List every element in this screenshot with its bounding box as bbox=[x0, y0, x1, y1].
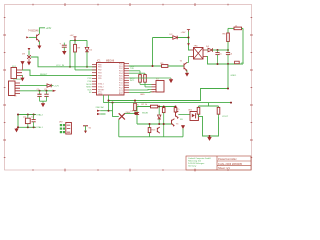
junction c5 bbox=[217, 49, 219, 51]
capacitor C1 bbox=[37, 91, 41, 101]
transistor T4 bbox=[37, 34, 40, 41]
svg-text:PB3: PB3 bbox=[98, 72, 102, 74]
svg-text:D2: D2 bbox=[90, 50, 94, 52]
T3 arrow bbox=[173, 125, 175, 126]
transistor T5 bbox=[176, 111, 179, 118]
IC1 pin names left column bbox=[98, 64, 105, 95]
junction caps1 bbox=[39, 90, 41, 92]
supply +5V symbol bbox=[74, 37, 77, 40]
wire R5 to T2 bbox=[168, 65, 184, 67]
svg-text:S1: S1 bbox=[89, 127, 92, 129]
title block left text bbox=[188, 157, 211, 167]
resistor R2 v x147 bbox=[129, 73, 146, 87]
wire R2 to SV2 bbox=[145, 86, 152, 88]
jumper JP2 body bbox=[66, 123, 72, 135]
wire T2 collector to trafo bbox=[187, 57, 191, 63]
switch S1 gnd bbox=[84, 131, 87, 134]
svg-text:XTAL2: XTAL2 bbox=[98, 86, 104, 89]
junction top right bbox=[188, 37, 190, 39]
svg-text:C5: C5 bbox=[219, 53, 222, 55]
capacitor C6 bbox=[226, 50, 230, 64]
IC1 box bbox=[97, 63, 125, 96]
port arrow 2 bbox=[97, 113, 100, 115]
wire T2 emitter gnd bbox=[186, 70, 188, 72]
connector X1 bbox=[9, 81, 21, 96]
inductor L1 vertical bbox=[227, 28, 230, 50]
wire T4 collector to +24V bbox=[39, 28, 45, 34]
wire right loop vertical bbox=[242, 28, 244, 64]
junction r6 top bbox=[134, 100, 136, 102]
wire SV1 pin1 to IC bbox=[22, 70, 97, 76]
junction x70 bus bbox=[69, 66, 71, 68]
wire IC to SV2 pin4 bbox=[129, 91, 152, 94]
ground arrow T2 bbox=[186, 72, 189, 76]
junction T5 top bbox=[175, 106, 177, 108]
junction q2 bbox=[17, 126, 19, 128]
junction d5 top bbox=[158, 106, 160, 108]
junction snubber left bbox=[136, 112, 138, 114]
junction r12 top bbox=[163, 106, 165, 108]
component above T5 bbox=[174, 107, 177, 113]
svg-text:C6: C6 bbox=[230, 53, 233, 55]
svg-text:R7 1k: R7 1k bbox=[142, 104, 148, 106]
wire into cross bbox=[28, 51, 30, 56]
svg-text:XTAL2: XTAL2 bbox=[36, 113, 43, 116]
IC1 right pins bbox=[124, 64, 129, 93]
IC1 left pins bbox=[92, 65, 97, 93]
supply arrow below cross bbox=[28, 59, 31, 65]
svg-text:X1: X1 bbox=[14, 96, 17, 98]
junction gnd line c5 bbox=[217, 63, 219, 65]
capacitor C2 bbox=[44, 91, 48, 101]
wire IC right pin1 long bbox=[129, 65, 162, 67]
title block right text bbox=[218, 157, 243, 170]
svg-text:SS: SS bbox=[89, 92, 92, 94]
svg-text:POWER: POWER bbox=[13, 79, 22, 81]
resistor R1 v x140 bbox=[129, 71, 141, 85]
svg-text:XTAL1: XTAL1 bbox=[98, 83, 104, 86]
wire top rail bbox=[70, 39, 87, 41]
wire XTAL1 bbox=[18, 126, 36, 128]
junction q3 bbox=[27, 114, 29, 116]
resistor R12 vertical bbox=[162, 107, 165, 137]
svg-text:TXD: TXD bbox=[130, 68, 135, 70]
capacitor C9 on gnd line bbox=[235, 61, 240, 64]
wire top h bbox=[153, 32, 191, 51]
wire SV1 pin3 to gnd bbox=[21, 75, 23, 77]
resistor R10 vertical bbox=[197, 106, 200, 116]
svg-text:+12V: +12V bbox=[54, 86, 60, 88]
svg-text:T5: T5 bbox=[177, 109, 180, 111]
svg-text:FB: FB bbox=[180, 119, 183, 121]
svg-text:T2: T2 bbox=[180, 61, 183, 63]
wire port1 bbox=[100, 110, 112, 112]
IC1 right outside labels bbox=[130, 66, 135, 82]
svg-text:+24V: +24V bbox=[181, 32, 187, 34]
diode D3 on top wire bbox=[173, 36, 177, 40]
transformer TR1 bbox=[194, 48, 204, 60]
svg-text:PD6: PD6 bbox=[88, 81, 93, 83]
junction caps2 bbox=[46, 90, 48, 92]
IC1 pin names right column bbox=[119, 63, 123, 95]
T5 arrow bbox=[177, 118, 179, 119]
wire R1 to SV2 bbox=[140, 83, 152, 85]
svg-text:+5V: +5V bbox=[70, 35, 74, 37]
ground arrow SV1 bbox=[21, 77, 24, 81]
svg-text:T3: T3 bbox=[176, 123, 179, 125]
junction x87 bus bbox=[86, 66, 88, 68]
junction q4 bbox=[27, 126, 29, 128]
svg-text:GND1: GND1 bbox=[231, 75, 238, 77]
svg-text:MEGA8: MEGA8 bbox=[106, 60, 115, 63]
junction r12 mid bbox=[163, 123, 165, 125]
frame border bbox=[5, 5, 252, 171]
snubber left v bbox=[136, 107, 138, 125]
svg-text:MISO: MISO bbox=[86, 87, 92, 89]
svg-text:KUAL 2006 28/09/05: KUAL 2006 28/09/05 bbox=[218, 162, 243, 166]
wire cross to bus bbox=[31, 57, 97, 67]
resistor R9 vertical bbox=[74, 40, 77, 70]
net port cross bbox=[27, 55, 31, 59]
svg-text:XTAL1: XTAL1 bbox=[36, 126, 43, 129]
bus lower bbox=[104, 102, 232, 104]
supply arrow above SV1 bbox=[21, 61, 24, 70]
junction bottom loop bbox=[209, 135, 211, 137]
IC1 bottom pin stub 1 bbox=[103, 95, 105, 103]
port arrow 1 bbox=[97, 110, 100, 112]
capacitor C3 bbox=[32, 115, 36, 128]
frame division ticks bbox=[3, 3, 253, 171]
junction T2 base line bbox=[152, 65, 154, 67]
svg-text:PD5: PD5 bbox=[88, 78, 93, 80]
wire T4 emitter down bbox=[38, 41, 40, 44]
net stub left of base bbox=[26, 36, 29, 38]
transistor T2 bbox=[184, 62, 187, 70]
wire caps join bbox=[40, 101, 47, 103]
frame letter marks bbox=[4, 4, 252, 171]
connector SV1 bbox=[11, 68, 22, 79]
wire T4 base bbox=[29, 36, 36, 38]
lower rail bbox=[119, 136, 183, 138]
svg-text:VCC_IN: VCC_IN bbox=[56, 65, 64, 67]
junction bus1 bbox=[108, 100, 110, 102]
svg-text:PB2: PB2 bbox=[98, 70, 102, 72]
snubber bottom rail bbox=[137, 123, 173, 125]
right sub loop: v from bus bbox=[199, 103, 219, 106]
diode D5 vertical bbox=[158, 107, 161, 125]
wire T5 to opto bbox=[178, 114, 190, 116]
connector SV2 bbox=[152, 81, 165, 93]
junction q6 bbox=[33, 126, 35, 128]
capacitor C5 bbox=[215, 50, 219, 64]
transistor T3 bbox=[172, 119, 175, 126]
junction q5 bbox=[33, 114, 35, 116]
diode D1 horizontal bbox=[47, 84, 53, 87]
supply symbol above junction bbox=[187, 30, 190, 32]
svg-text:PB5: PB5 bbox=[98, 78, 102, 80]
junction bus2 bbox=[112, 102, 114, 104]
wire varistor down bbox=[118, 120, 120, 137]
junction gnd line c6 bbox=[227, 63, 229, 65]
ground crystal bbox=[15, 127, 18, 131]
wire bus2 to IC bbox=[75, 69, 97, 71]
bus upper bbox=[109, 64, 229, 101]
supply arrow on primary feed bbox=[187, 43, 190, 46]
supply arrow above cross bbox=[28, 48, 31, 51]
wire XTAL2 bbox=[18, 114, 36, 116]
svg-text:T4 BC546: T4 BC546 bbox=[28, 31, 39, 33]
svg-text:+: + bbox=[60, 43, 62, 46]
svg-text:RESET: RESET bbox=[40, 74, 48, 76]
supply arrow x183 bbox=[182, 125, 185, 128]
wire varistor to bridge bbox=[125, 112, 137, 114]
junction sec gnd corner bbox=[227, 88, 229, 90]
vertical from top loop bbox=[152, 38, 154, 67]
inductor L2 top horizontal bbox=[228, 27, 243, 30]
opto OK1 box bbox=[190, 112, 198, 121]
diode D4 bbox=[208, 48, 212, 52]
wire v x70 bbox=[69, 40, 71, 66]
svg-text:PB4: PB4 bbox=[98, 75, 102, 77]
svg-text:MOSI: MOSI bbox=[86, 84, 92, 86]
wire v x183 bbox=[182, 129, 184, 137]
snubber top rail bbox=[137, 106, 176, 108]
supply arrow below T4 bbox=[38, 45, 41, 49]
component on v x149 bbox=[148, 128, 151, 133]
junction port1 bbox=[108, 110, 110, 112]
svg-text:230V AC: 230V AC bbox=[96, 106, 105, 109]
svg-text:VOUT: VOUT bbox=[222, 116, 229, 118]
TR1 secondary pins bbox=[203, 50, 207, 57]
wire X1 pin2 upper bbox=[20, 85, 47, 87]
junction on rail bbox=[74, 39, 76, 41]
bus end junction bbox=[230, 102, 232, 104]
ground below C7 bbox=[63, 51, 66, 55]
IC1 bottom pin stub 2 bbox=[108, 95, 110, 101]
resistor R5 horizontal bbox=[162, 65, 168, 68]
svg-text:+24V: +24V bbox=[46, 27, 52, 30]
C7 leads bbox=[63, 43, 65, 51]
ground arrow caps bbox=[41, 103, 44, 107]
wire secondary bottom bbox=[207, 57, 244, 65]
wire IC pin to gnd arrow bbox=[129, 77, 171, 79]
capacitor C8 on left v bbox=[135, 112, 139, 114]
svg-text:GND: GND bbox=[140, 94, 145, 96]
svg-text:SCK: SCK bbox=[87, 89, 92, 91]
wire port2 bbox=[100, 113, 105, 115]
svg-text:SNUB: SNUB bbox=[142, 113, 148, 115]
junction r6 bottom bbox=[134, 112, 136, 114]
svg-text:PowerController: PowerController bbox=[218, 157, 237, 161]
wire X1 pin4 lower bbox=[20, 90, 52, 92]
svg-text:D4: D4 bbox=[206, 46, 210, 48]
wire IC gnd down bbox=[108, 101, 110, 111]
wire D4 to loop bbox=[212, 49, 228, 51]
wire IC to SV2 pin3 bbox=[129, 88, 152, 91]
svg-text:JP2: JP2 bbox=[59, 121, 63, 123]
transistor T4 emitter arrow bbox=[38, 41, 40, 42]
svg-text:PB1: PB1 bbox=[98, 67, 102, 69]
diode D2 vertical bbox=[85, 40, 89, 66]
svg-text:Germany: Germany bbox=[188, 165, 196, 167]
switch S1 bar bbox=[83, 125, 88, 127]
wire drop x112 bbox=[113, 103, 119, 117]
crystal section: v left bbox=[17, 115, 19, 128]
resistor R11 vertical bbox=[217, 106, 220, 116]
svg-text:Sheet: 1/1: Sheet: 1/1 bbox=[218, 166, 230, 170]
svg-text:R8: R8 bbox=[223, 34, 227, 36]
svg-text:0V: 0V bbox=[241, 63, 244, 65]
resistor R7 on top rail bbox=[151, 105, 158, 108]
title block bbox=[186, 156, 251, 170]
switch S1 stem bbox=[85, 126, 87, 131]
T2 emitter arrow bbox=[185, 70, 187, 71]
svg-text:GND: GND bbox=[98, 94, 103, 96]
jumper JP2 pads bbox=[60, 124, 65, 133]
svg-text:PC5: PC5 bbox=[119, 93, 123, 95]
small transistor lower bbox=[157, 127, 160, 133]
wire secondary top bbox=[207, 49, 209, 51]
IC1 left outside labels bbox=[86, 78, 92, 94]
ground arrow right of SV2 bbox=[169, 78, 172, 82]
svg-text:INT1: INT1 bbox=[130, 80, 135, 82]
capacitor C7 bbox=[62, 45, 67, 47]
net arrow port right bbox=[53, 90, 57, 92]
junction c6 bbox=[227, 49, 229, 51]
svg-text:D9: D9 bbox=[22, 54, 26, 56]
junction q1 bbox=[17, 114, 19, 116]
varistor cross bbox=[119, 113, 125, 119]
TR1 primary pins bbox=[191, 50, 194, 57]
JP2 pins bbox=[67, 125, 70, 132]
v x149 bbox=[149, 124, 151, 137]
junction x149 bbox=[149, 123, 151, 125]
wire opto bottom loop bbox=[199, 116, 219, 136]
svg-text:R13: R13 bbox=[152, 129, 157, 131]
junction d5 bottom bbox=[158, 123, 160, 125]
crystal Q1 bbox=[25, 115, 30, 128]
resistor R6 vertical bbox=[134, 101, 137, 114]
ground arrow bottom loop bbox=[208, 136, 211, 140]
svg-text:R9: R9 bbox=[78, 48, 82, 50]
